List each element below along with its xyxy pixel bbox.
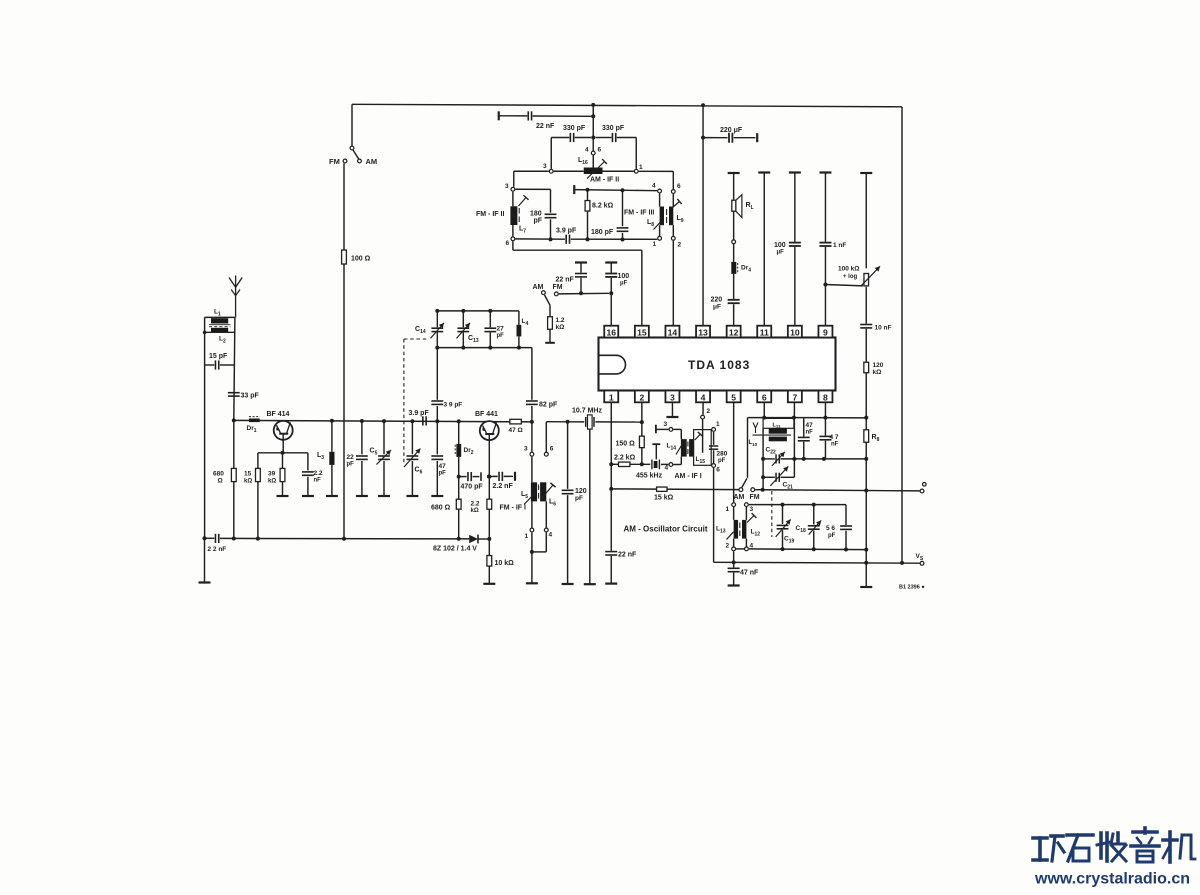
svg-text:4: 4 [652, 183, 656, 190]
svg-text:6: 6 [716, 467, 720, 474]
svg-text:3: 3 [750, 506, 754, 513]
svg-text:L11: L11 [773, 422, 782, 429]
svg-text:47 nF: 47 nF [740, 570, 759, 577]
svg-text:+ log: + log [843, 274, 858, 280]
svg-text:27: 27 [497, 326, 505, 333]
svg-text:13: 13 [698, 327, 708, 337]
svg-text:BF 414: BF 414 [267, 411, 290, 418]
svg-text:33 pF: 33 pF [241, 393, 260, 400]
svg-text:1: 1 [609, 392, 614, 402]
svg-text:1 nF: 1 nF [833, 242, 846, 249]
svg-text:BF 441: BF 441 [475, 411, 498, 418]
svg-text:15: 15 [244, 471, 252, 478]
svg-text:47: 47 [439, 463, 447, 470]
svg-text:TDA 1083: TDA 1083 [688, 358, 750, 372]
svg-text:8.2 kΩ: 8.2 kΩ [592, 203, 614, 210]
svg-text:15 pF: 15 pF [209, 353, 228, 360]
svg-text:pF: pF [718, 458, 726, 464]
svg-text:FM: FM [750, 494, 760, 501]
svg-text:6: 6 [677, 183, 681, 190]
svg-text:pF: pF [497, 333, 505, 339]
svg-text:330 pF: 330 pF [563, 125, 586, 132]
svg-text:pF: pF [575, 495, 583, 502]
svg-text:AM - Oscillator Circuit: AM - Oscillator Circuit [624, 525, 708, 534]
svg-text:100: 100 [618, 273, 630, 280]
svg-text:22 nF: 22 nF [556, 277, 575, 284]
svg-text:pF: pF [828, 533, 836, 539]
svg-text:47 Ω: 47 Ω [509, 427, 523, 434]
svg-text:455 kHz: 455 kHz [636, 473, 663, 480]
svg-text:8: 8 [823, 392, 828, 402]
svg-text:kΩ: kΩ [873, 369, 882, 376]
svg-text:2.2 nF: 2.2 nF [493, 483, 514, 490]
svg-text:3: 3 [524, 446, 528, 453]
svg-text:kΩ: kΩ [244, 479, 252, 485]
svg-text:1: 1 [653, 241, 657, 248]
svg-text:12: 12 [729, 327, 739, 337]
svg-text:2.2: 2.2 [314, 470, 323, 477]
svg-text:10.7 MHz: 10.7 MHz [572, 408, 602, 415]
svg-text:82 pF: 82 pF [539, 402, 558, 409]
svg-text:22: 22 [347, 454, 355, 461]
svg-text:15 kΩ: 15 kΩ [654, 495, 674, 502]
svg-text:1: 1 [726, 506, 730, 513]
svg-text:9: 9 [823, 327, 828, 337]
svg-text:11: 11 [760, 327, 769, 337]
svg-text:AM: AM [533, 284, 544, 291]
svg-text:kΩ: kΩ [556, 324, 565, 331]
svg-text:100 kΩ: 100 kΩ [838, 266, 859, 273]
svg-text:3: 3 [664, 421, 668, 428]
svg-text:120: 120 [873, 362, 884, 369]
svg-text:1: 1 [639, 164, 643, 171]
svg-text:6: 6 [598, 147, 602, 154]
svg-text:14: 14 [668, 327, 678, 337]
svg-text:B1 2396 ●: B1 2396 ● [899, 585, 925, 591]
svg-text:3: 3 [543, 163, 547, 170]
svg-text:3.9 pF: 3.9 pF [409, 410, 430, 417]
svg-text:nF: nF [806, 430, 814, 436]
svg-text:8Z 102 / 1.4 V: 8Z 102 / 1.4 V [433, 546, 477, 553]
svg-text:www.crystalradio.cn: www.crystalradio.cn [1034, 871, 1190, 888]
svg-text:680: 680 [213, 471, 224, 478]
svg-text:330 pF: 330 pF [602, 125, 625, 132]
svg-text:kΩ: kΩ [471, 508, 479, 514]
svg-text:3: 3 [505, 183, 509, 190]
svg-text:220 μF: 220 μF [720, 127, 743, 134]
svg-text:6: 6 [550, 446, 554, 453]
svg-text:FM: FM [553, 284, 563, 291]
svg-text:2: 2 [639, 392, 644, 402]
svg-text:FM - IF II: FM - IF II [476, 211, 504, 218]
svg-text:kΩ: kΩ [268, 479, 276, 485]
svg-text:6: 6 [506, 240, 510, 247]
svg-text:pF: pF [439, 471, 447, 477]
svg-text:22 nF: 22 nF [536, 123, 555, 130]
svg-text:120: 120 [575, 488, 587, 495]
svg-text:2: 2 [707, 408, 711, 415]
svg-text:180 pF: 180 pF [591, 229, 614, 236]
svg-text:4: 4 [549, 532, 553, 539]
svg-text:2: 2 [726, 543, 730, 550]
svg-text:1: 1 [525, 533, 529, 540]
svg-text:5: 5 [731, 392, 736, 402]
svg-text:10: 10 [790, 327, 800, 337]
svg-text:FM - IF III: FM - IF III [624, 210, 654, 217]
svg-text:AM - IF II: AM - IF II [590, 177, 619, 184]
svg-text:10 kΩ: 10 kΩ [495, 560, 515, 567]
svg-text:150 Ω: 150 Ω [616, 441, 636, 448]
svg-text:4: 4 [665, 465, 669, 472]
svg-text:7: 7 [792, 392, 797, 402]
svg-text:680 Ω: 680 Ω [431, 505, 451, 512]
svg-text:470 pF: 470 pF [461, 484, 484, 491]
svg-text:2 2 nF: 2 2 nF [208, 546, 227, 553]
svg-text:100: 100 [774, 242, 786, 249]
svg-text:2: 2 [678, 242, 682, 249]
svg-text:16: 16 [606, 327, 616, 337]
svg-text:220: 220 [711, 297, 723, 304]
svg-text:1.2: 1.2 [556, 317, 565, 324]
svg-text:22 nF: 22 nF [618, 552, 637, 559]
svg-text:2.2 kΩ: 2.2 kΩ [614, 455, 636, 462]
svg-text:180: 180 [530, 211, 542, 218]
svg-text:Ω: Ω [218, 478, 223, 485]
svg-text:10 nF: 10 nF [875, 325, 892, 332]
svg-text:4: 4 [701, 392, 706, 402]
svg-text:pF: pF [534, 218, 543, 225]
svg-text:1: 1 [716, 421, 720, 428]
svg-text:AM: AM [366, 157, 378, 166]
svg-text:100 Ω: 100 Ω [351, 256, 371, 263]
svg-text:FM: FM [329, 157, 340, 166]
svg-text:nF: nF [831, 442, 839, 448]
svg-text:47: 47 [806, 422, 814, 429]
svg-text:280: 280 [717, 451, 728, 458]
svg-text:3 9 pF: 3 9 pF [444, 402, 463, 409]
svg-text:6: 6 [762, 392, 767, 402]
svg-text:L10: L10 [749, 440, 758, 447]
svg-text:2.2: 2.2 [471, 501, 480, 508]
svg-text:39: 39 [268, 471, 276, 478]
svg-text:5 6: 5 6 [826, 525, 835, 532]
svg-text:4: 4 [585, 147, 589, 154]
svg-text:AM - IF I: AM - IF I [675, 473, 702, 480]
svg-text:pF: pF [347, 462, 355, 468]
svg-text:3: 3 [670, 392, 675, 402]
svg-text:μF: μF [777, 250, 785, 256]
svg-text:4 7: 4 7 [830, 434, 839, 441]
svg-text:FM - IF I: FM - IF I [500, 505, 526, 512]
svg-text:μF: μF [620, 281, 628, 287]
svg-text:15: 15 [637, 327, 647, 337]
svg-text:μF: μF [713, 304, 721, 311]
svg-text:AM: AM [734, 494, 745, 501]
svg-text:nF: nF [314, 478, 322, 484]
svg-text:3.9 pF: 3.9 pF [556, 228, 577, 235]
